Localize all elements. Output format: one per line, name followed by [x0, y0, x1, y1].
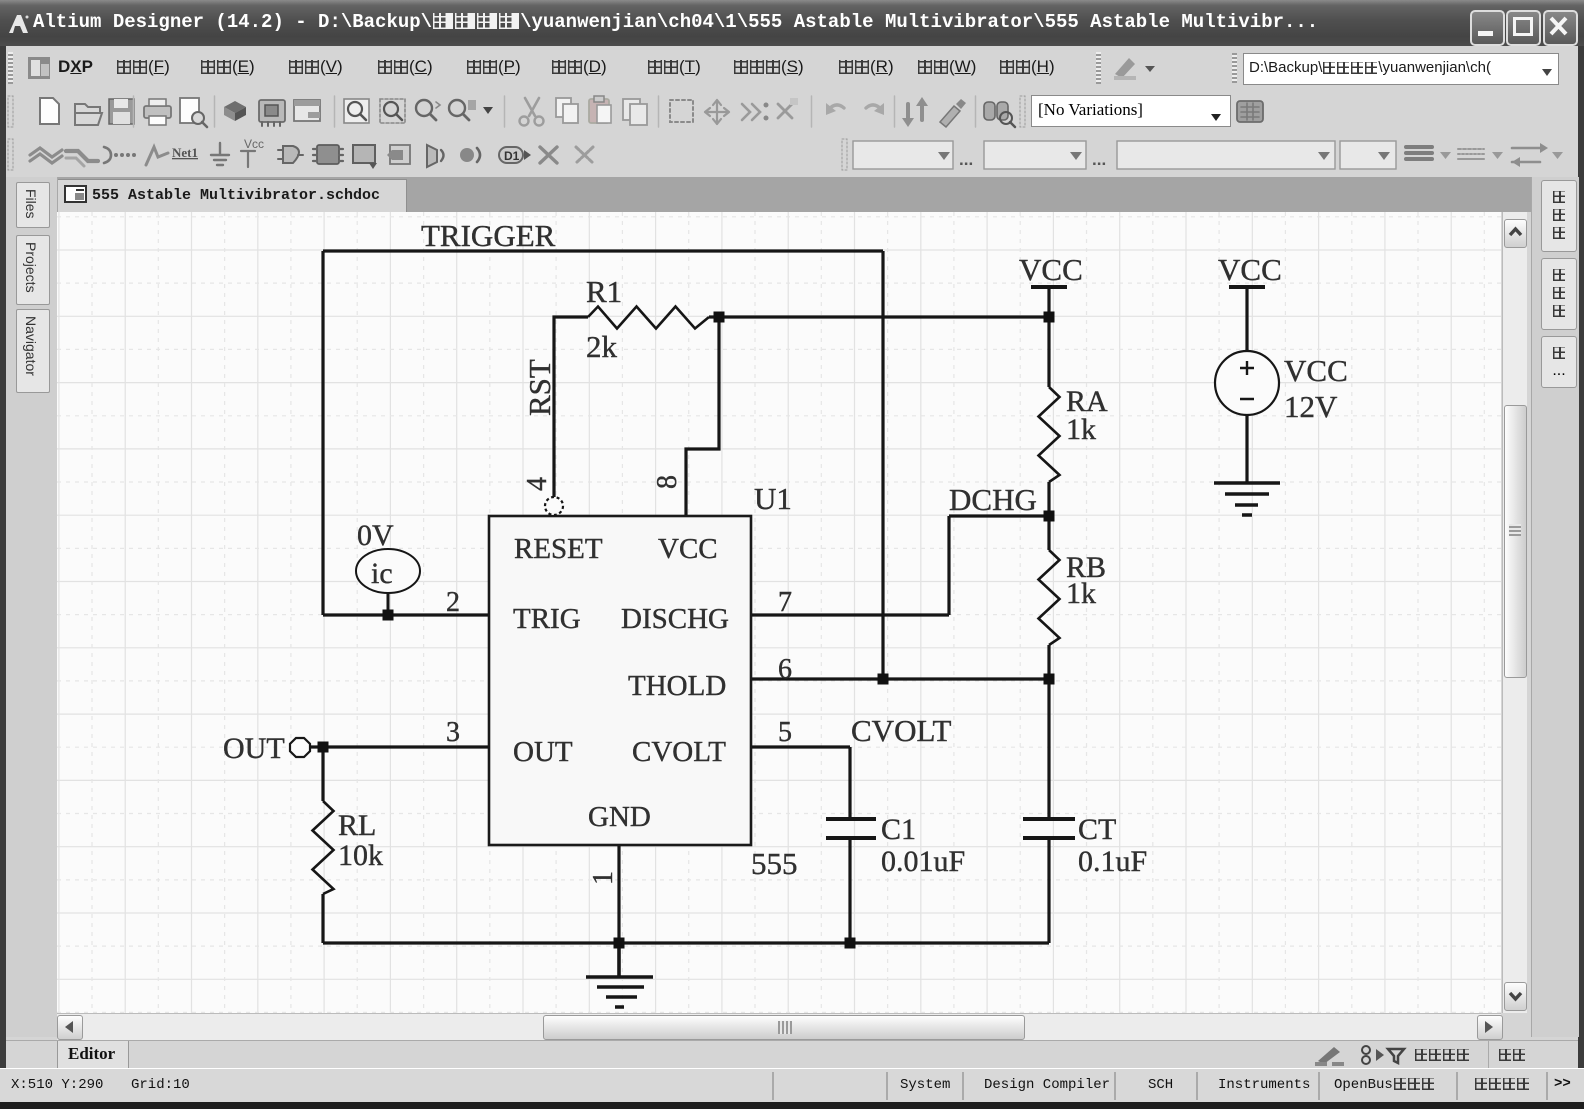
line style [1458, 148, 1484, 150]
wire R1 right lead to VCC rail [709, 315, 1049, 318]
signal harness [104, 147, 111, 163]
wire VCC left rail top [1047, 287, 1050, 387]
wire RB bottom to CT top [1047, 645, 1050, 819]
redo [866, 105, 882, 110]
svg-text:RST: RST [522, 359, 557, 416]
svg-text:8: 8 [652, 475, 683, 489]
select rect [670, 100, 693, 122]
polyline [146, 147, 168, 165]
preview [180, 98, 199, 123]
zoom area [380, 99, 405, 123]
svg-text:2k: 2k [586, 329, 618, 364]
svg-text:TRIGGER: TRIGGER [421, 218, 556, 253]
direction arrows [1512, 148, 1540, 162]
svg-text:555: 555 [751, 846, 798, 881]
cut [525, 98, 539, 116]
wire R1 left lead + RST vertical [554, 317, 588, 497]
junction VCC rail top [1044, 312, 1055, 323]
svg-text:DCHG: DCHG [949, 482, 1037, 517]
wire pin8 jog [686, 317, 719, 516]
wire VCC source bottom [1245, 415, 1248, 482]
resistor R1 2k [588, 307, 709, 329]
svg-text:R1: R1 [586, 274, 622, 309]
zoom pointed [416, 100, 432, 116]
svg-text:GND: GND [588, 801, 651, 833]
move cross [705, 100, 729, 124]
svg-text:5: 5 [778, 717, 792, 748]
no erc X [540, 147, 557, 163]
svg-text:0.01uF: 0.01uF [881, 845, 965, 878]
harness connector [427, 145, 437, 167]
part [317, 145, 339, 164]
svg-text:RESET: RESET [514, 533, 603, 565]
svg-text:10k: 10k [338, 839, 383, 872]
junction ic-TRIG [383, 610, 394, 621]
wire pin2 TRIG [323, 613, 489, 616]
svg-text:OUT: OUT [223, 732, 285, 765]
ground center [586, 943, 653, 1007]
sheet symbol [353, 145, 375, 163]
svg-text:CVOLT: CVOLT [632, 736, 726, 768]
svg-text:Net1: Net1 [172, 145, 198, 160]
svg-text:1: 1 [588, 871, 619, 885]
svg-text:Vcc: Vcc [244, 137, 264, 151]
zoom selected [449, 100, 465, 116]
svg-text:...: ... [1092, 150, 1106, 169]
bus tool [66, 151, 98, 161]
wire trigger left vertical [321, 251, 324, 615]
variant icon [1237, 101, 1263, 122]
junction DCHG [1044, 511, 1055, 522]
wire DCHG pin7 [751, 516, 1049, 615]
port [460, 148, 474, 162]
svg-text:0V: 0V [357, 519, 394, 552]
capacitor C1 plates [826, 819, 876, 838]
svg-text:VCC: VCC [1284, 353, 1348, 388]
gate [283, 146, 299, 163]
junction C1-bottom [845, 938, 856, 949]
svg-text:U1: U1 [754, 481, 792, 516]
svg-text:...: ... [959, 150, 973, 169]
svg-text:4: 4 [522, 477, 553, 491]
print [144, 106, 171, 118]
paste array [623, 99, 640, 120]
svg-text:6: 6 [778, 654, 792, 685]
capacitor CT plates [1023, 819, 1075, 838]
svg-text:VCC: VCC [658, 533, 718, 565]
resistor RL 10k [313, 801, 334, 894]
cross small [778, 104, 792, 118]
paste [589, 99, 609, 123]
svg-text:VCC: VCC [1218, 252, 1282, 287]
power VCC bar right [1229, 285, 1265, 289]
svg-text:C1: C1 [881, 813, 916, 846]
svg-text:12V: 12V [1284, 389, 1338, 424]
svg-text:D1: D1 [504, 149, 520, 163]
svg-text:ic: ic [371, 557, 393, 590]
sheet entry [390, 145, 410, 164]
panel [294, 100, 320, 121]
svg-text:VCC: VCC [1019, 252, 1083, 287]
wire RL bottom lead [321, 894, 324, 943]
X dashed [576, 147, 593, 163]
gnd tool [211, 143, 229, 165]
svg-text:CT: CT [1078, 813, 1116, 846]
svg-text:RL: RL [338, 809, 376, 842]
wire CT bottom [1047, 838, 1050, 943]
wire pin6 THOLD [751, 677, 1049, 680]
open [75, 104, 102, 125]
line width [1406, 147, 1432, 159]
svg-text:CVOLT: CVOLT [851, 713, 952, 748]
wire bottom rail [323, 941, 1049, 944]
svg-text:DISCHG: DISCHG [621, 603, 729, 635]
svg-text:3: 3 [446, 717, 460, 748]
zoom fit [344, 99, 369, 123]
pen [940, 106, 960, 127]
wire tool [30, 148, 62, 157]
board chip [259, 100, 285, 122]
wire pin1 GND [617, 845, 620, 943]
copy [556, 98, 571, 117]
wire TRIGGER top [323, 249, 883, 252]
wire VCC source top [1245, 287, 1248, 351]
junction pin1-bottom [614, 938, 625, 949]
arrange [742, 104, 760, 120]
op ic ellipse (0V initial condition) [356, 549, 420, 593]
svg-text:OUT: OUT [513, 736, 573, 768]
junction R1-right [714, 312, 725, 323]
wire RL top lead [321, 747, 324, 801]
resistor RB 1k [1039, 550, 1060, 645]
svg-text:0.1uF: 0.1uF [1078, 845, 1147, 878]
svg-text:2: 2 [446, 587, 460, 618]
svg-text:1k: 1k [1066, 577, 1096, 610]
wire RA-RB middle [1047, 482, 1050, 550]
op-amp U1 555 box [489, 516, 751, 845]
diff pair [499, 147, 523, 163]
svg-text:7: 7 [778, 587, 792, 618]
wire pin5 CVOLT [751, 747, 850, 819]
wire C1 bottom [848, 838, 851, 943]
undo [828, 105, 844, 110]
power VCC bar left [1031, 285, 1067, 289]
binoculars [984, 102, 995, 120]
port OUT circle [290, 738, 310, 757]
3d component [224, 101, 246, 113]
wire trigger right vertical [881, 251, 884, 679]
ground right [1214, 483, 1280, 515]
svg-text:THOLD: THOLD [628, 670, 726, 702]
up-down arrows [906, 104, 910, 120]
right group [842, 139, 847, 170]
resistor RA 1k [1039, 387, 1060, 482]
pin4 bubble [545, 497, 563, 515]
save [109, 99, 134, 124]
voltage source VCC 12V [1215, 351, 1279, 415]
svg-text:TRIG: TRIG [513, 603, 581, 635]
wire pin3 OUT [310, 745, 489, 748]
new [40, 98, 59, 124]
junction pin6-RB [1044, 674, 1055, 685]
junction trigger-pin6 [878, 674, 889, 685]
junction OUT-RL [318, 742, 329, 753]
svg-text:1k: 1k [1066, 413, 1096, 446]
